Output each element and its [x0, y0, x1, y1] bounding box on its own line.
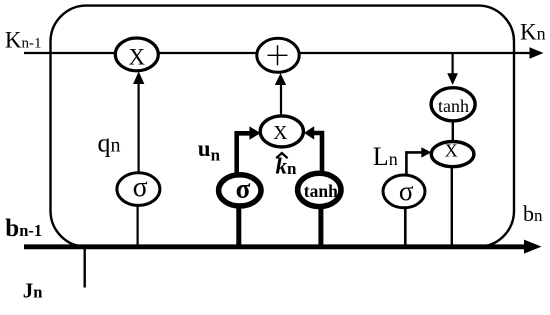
arrowhead bn output: [524, 240, 542, 254]
svg-text:tanh: tanh: [438, 96, 469, 116]
svg-text:qn: qn: [98, 128, 121, 157]
multiply gate X2: [431, 141, 474, 167]
bold arrowhead into X3 right: [304, 126, 314, 139]
svg-text:Ln: Ln: [373, 142, 398, 171]
label k hat n: [276, 153, 298, 178]
svg-text:bn-1: bn-1: [5, 215, 42, 242]
multiply gate X3: [260, 116, 303, 147]
wire sigma Ln down to b line: [404, 207, 407, 247]
multiply gate X1: [115, 38, 158, 71]
sigma gate U1 thin: [117, 172, 160, 206]
wire X3 up to plus: [280, 85, 282, 117]
arrowhead into X1: [133, 72, 144, 85]
bold wire elbow tanh2 to X3: [313, 133, 322, 175]
tanh gate U5 right: [431, 88, 475, 121]
svg-text:X: X: [273, 122, 288, 144]
wire Jn input tick: [83, 249, 85, 288]
wire b line (bn-1 to bn): [24, 244, 527, 249]
bold arrowhead into X3 left: [249, 126, 260, 139]
bold wire elbow sigma2 to X3: [237, 133, 251, 176]
svg-text:un: un: [198, 136, 221, 165]
add gate plus: [257, 38, 299, 72]
svg-text:X: X: [445, 141, 458, 161]
svg-text:σ: σ: [133, 172, 148, 203]
svg-text:tanh: tanh: [304, 181, 338, 201]
svg-text:σ: σ: [236, 173, 251, 203]
svg-text:bn: bn: [523, 201, 543, 226]
arrowhead Kn output: [530, 47, 544, 58]
wire elbow from sigma Ln to X2: [406, 152, 421, 176]
svg-text:Jn: Jn: [23, 279, 43, 303]
wire K line (Kn-1 to Kn): [24, 52, 536, 54]
wire branch down from K line to tanh: [452, 53, 454, 75]
cell boundary rounded rectangle: [51, 6, 515, 247]
svg-text:σ: σ: [399, 176, 414, 206]
wire X2 down to b line: [451, 166, 453, 248]
sigma gate U2 bold: [219, 173, 261, 206]
wire sigma thin down to b line: [137, 205, 139, 248]
arrowhead into X2: [421, 147, 431, 157]
arrowhead into plus gate: [275, 73, 286, 85]
sigma gate U4 Ln: [383, 175, 425, 208]
svg-text:X: X: [128, 44, 145, 69]
bold wire sigma2 down to b line: [236, 203, 241, 249]
tanh gate U3 bold: [298, 173, 341, 206]
wire sigma1 up to X1: [138, 84, 140, 174]
svg-text:Kn: Kn: [520, 20, 546, 45]
bold wire tanh2 down to b line: [318, 204, 323, 249]
arrowhead into tanh U5: [447, 73, 458, 85]
svg-text:Kn-1: Kn-1: [5, 28, 42, 53]
wire tanh to X2: [452, 120, 454, 143]
